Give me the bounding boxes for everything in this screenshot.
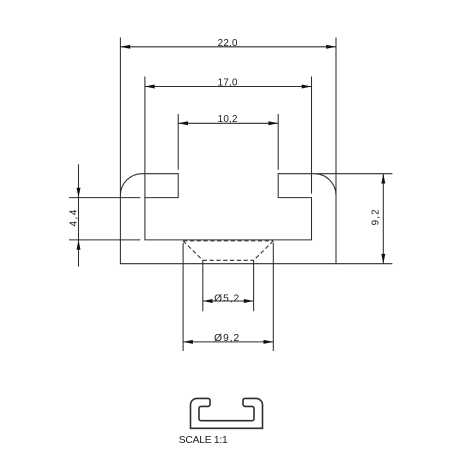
countersink hidden line: left cone <box>183 241 203 260</box>
dim dia5.2 extension right <box>253 260 255 311</box>
dim 17.0 line <box>145 86 312 88</box>
dim dia5.2 line <box>203 300 254 302</box>
dim dia5.2 extension left <box>202 260 204 311</box>
arrow 4.4 top (outside, points down) <box>77 188 81 198</box>
dim 10.2 extension left <box>177 114 179 170</box>
arrow 22.0 right <box>326 45 336 49</box>
countersink hidden line: right cone <box>254 241 274 260</box>
arrow 10.2 left <box>178 121 188 125</box>
dim 22.0 line <box>120 46 336 48</box>
dim 4.4 extension top <box>69 197 140 199</box>
arrow 9.2 bottom <box>381 254 385 264</box>
arrow 17.0 right <box>302 85 312 89</box>
part outline (T-slot channel cross-section) <box>120 174 336 264</box>
arrow 10.2 right <box>268 121 278 125</box>
dim 10.2 line <box>178 122 278 124</box>
dim dia9.2 extension right <box>272 243 274 351</box>
countersink hidden line: bottom (dia 5.2) <box>203 259 254 261</box>
dim 22.0 extension right <box>335 38 337 196</box>
arrow dia5.2 left <box>203 299 213 303</box>
dim 9.2 extension top <box>317 173 393 175</box>
dim 10.2 extension right <box>277 114 279 170</box>
svg-text:17,0: 17,0 <box>218 77 238 88</box>
dim 17.0 extension right <box>311 77 313 194</box>
arrow 9.2 top <box>381 174 385 184</box>
arrow 4.4 bottom (outside, points up) <box>77 240 81 250</box>
arrow dia5.2 right <box>244 299 254 303</box>
dim dia9.2 line <box>183 341 273 343</box>
arrow dia9.2 right <box>264 340 274 344</box>
svg-text:9,2: 9,2 <box>370 208 381 225</box>
arrow 17.0 left <box>145 85 155 89</box>
arrow dia9.2 left <box>183 340 193 344</box>
svg-text:Ø5,2: Ø5,2 <box>214 293 240 304</box>
dim 22.0 extension left <box>119 38 121 196</box>
dim dia9.2 extension left <box>182 243 184 351</box>
svg-text:SCALE 1:1: SCALE 1:1 <box>179 435 228 446</box>
scale 1:1 small profile outline <box>191 398 263 428</box>
dim 9.2 line <box>382 174 384 264</box>
countersink hidden line: top edge <box>183 240 273 242</box>
svg-text:4,4: 4,4 <box>68 208 79 226</box>
dim 4.4 line <box>78 164 80 266</box>
svg-text:Ø9,2: Ø9,2 <box>214 333 240 344</box>
svg-text:22,0: 22,0 <box>218 38 238 49</box>
dim 17.0 extension left <box>144 77 146 198</box>
dim 4.4 extension bottom <box>69 239 140 241</box>
svg-text:10,2: 10,2 <box>218 114 238 125</box>
dim 9.2 extension bottom <box>336 263 392 265</box>
arrow 22.0 left <box>120 45 130 49</box>
